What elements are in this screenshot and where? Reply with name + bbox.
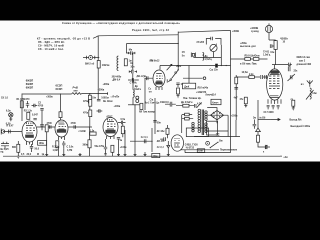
svg-text:Пзв. Тлпвам Цз.: Пзв. Тлпвам Цз. [183,98,202,100]
grid wire [236,76,267,78]
svg-text:высоков. доп: высоков. доп [240,46,256,48]
neon bulb [265,25,272,32]
svg-text:390к: 390к [83,145,89,147]
b+ drop wire [125,105,135,156]
series capacitor C top [129,51,135,55]
ground lamp [9,117,12,121]
supply bus [22,93,107,95]
screen dropper resistor [88,95,91,103]
cathode drop [258,132,265,147]
V2 pin dots [58,139,59,140]
svg-text:+300В: +300В [232,31,239,33]
ps verticals right [235,120,237,137]
cathode rail [257,100,259,128]
svg-text:6Ж3П: 6Ж3П [26,79,33,83]
bracket mark [266,146,268,150]
main B+ drop [177,32,179,71]
coupling cap h [32,104,38,107]
ground glyph e [124,154,127,156]
V1 pins [27,141,33,145]
capacitor С3 [33,118,36,120]
grid resistor V2 [45,125,48,132]
rail cap [153,121,156,123]
coupling line right [272,63,292,67]
mod grid resistor [166,128,169,134]
screen resistors R16 [245,58,251,61]
lower link wire [185,137,231,153]
transformer primary [198,109,201,132]
module box [186,128,208,137]
interstage drop wire [132,53,134,90]
svg-text:БМ-2 об: БМ-2 об [85,63,95,65]
V2 cathode blob [57,129,66,132]
svg-text:Переключение: Переключение [220,150,238,152]
ps small wires [182,115,194,119]
bypass cap right [118,121,126,124]
svg-text:пр.: пр. [1,152,5,154]
svg-text:470к: 470к [83,112,89,115]
svg-text:С9 - МБГЧ, 10 мкФ: С9 - МБГЧ, 10 мкФ [38,43,65,47]
input wire [3,131,22,133]
svg-text:в Об нам. Пам.: в Об нам. Пам. [240,63,257,65]
svg-text:№Об: №Об [260,117,266,120]
svg-text:Выход R/к: Выход R/к [290,120,303,122]
wire cathode [17,141,19,156]
svg-text:+200в: +200в [240,43,247,45]
grid resistor 2,2к [249,76,255,79]
grid cap [270,44,274,48]
svg-text:4н7: 4н7 [234,97,239,100]
svg-text:R10 м04а: R10 м04а [198,86,209,89]
series cap Сс [144,139,146,143]
svg-text:1,5кГц: 1,5кГц [263,54,271,56]
tube V2 envelope [55,120,68,137]
svg-text:С 4Н/с: С 4Н/с [130,82,138,85]
svg-text:Радио 1961, №2, стр 42: Радио 1961, №2, стр 42 [132,28,170,32]
ground glyph d [117,154,120,156]
ground stub 1 [17,156,20,158]
ground r [292,106,295,110]
ground glyph a [45,154,48,156]
svg-text:6С3П: 6С3П [56,87,63,91]
svg-text:100Ом: 100Ом [101,98,109,100]
pilot lamp [9,113,13,117]
grid leak resistor [88,140,91,148]
bus end tick [107,92,109,95]
svg-text:Ключ: Ключ [212,102,219,104]
svg-text:R9 Том помер: R9 Том помер [139,111,156,113]
V5 pins [268,99,281,104]
grid drive wire [145,76,154,80]
grid resistor 470 [177,88,180,94]
svg-text:50к-470к: 50к-470к [95,145,105,148]
svg-text:мм: мм [74,90,78,93]
inline zigzag [72,93,82,95]
svg-text:Ом: Ом [219,140,223,142]
dropping resistor [274,41,277,50]
mains input connector [1,142,9,149]
wires mod section [193,52,221,58]
ground stub 3 [80,153,90,156]
svg-text:R 0,47: R 0,47 [7,125,15,128]
tank cap loop [206,37,221,45]
bias rail [235,75,237,120]
osc section top bus [98,35,178,36]
anode top-cap line [160,66,215,70]
svg-text:Выходной 4 КОм: Выходной 4 КОм [291,125,311,128]
series cap on feed [128,78,139,82]
svg-text:+250в: +250в [231,116,238,118]
svg-text:10н: 10н [92,98,97,100]
meter arrow [271,119,280,121]
coupling bus branch [126,43,178,45]
ground glyph g [144,154,147,156]
transformer core [202,110,203,136]
choke output node [128,104,140,106]
base bypass caps [267,105,280,109]
svg-text:ОВБ 13 сам: ОВБ 13 сам [297,57,311,59]
svg-text:0,047: 0,047 [32,113,39,116]
choke Др2 [133,90,134,105]
bridge connections [207,108,228,137]
resistor R3 [27,112,30,119]
bias cell box [38,141,47,146]
anode blocking cap [288,65,290,72]
V3 pins [107,136,115,139]
grid stopper cap [117,138,120,144]
cathode resistor V3 [111,145,114,152]
coupling cap h2 [97,109,103,112]
antenna coil variometer [306,88,314,100]
V5 grid dashes [269,76,280,98]
black matte frame [0,0,320,180]
svg-text:6Ж3П: 6Ж3П [26,82,33,86]
electrolytic С6 [30,144,33,152]
svg-text:%-ЗТ32: %-ЗТ32 [186,148,195,150]
bias resistor [235,77,238,84]
base bypass resistor [292,100,295,106]
V1 cathode blob [25,135,34,138]
svg-text:4,7М: 4,7М [67,149,72,152]
electrolytic С7 [62,141,65,149]
wire to box [183,66,203,84]
V5 anode lead [274,65,276,69]
wire grid R [46,132,48,142]
svg-text:4700: 4700 [38,104,44,107]
anode terminal blob [215,64,218,68]
input coupling cap [9,130,11,134]
screen rail drop [89,94,91,127]
svg-text:С 2,0к: С 2,0к [67,147,75,149]
svg-text:М: М [37,154,39,156]
tube V5 envelope [267,69,283,100]
svg-text:13,5м: 13,5м [242,72,249,74]
V1 pin dots [26,144,27,145]
resistor R4 [97,61,100,69]
box Юм left [152,153,160,157]
wire grid column [21,94,23,122]
cathode electrolytic [104,139,107,154]
tube V1 envelope [22,121,37,142]
ground glyph h [167,154,170,156]
resistor box 1,2к [90,132,96,135]
bus junction dots [89,93,90,94]
svg-text:50н: 50н [157,122,162,124]
anode feed V2 [60,94,62,121]
bias cap [234,87,238,89]
V5 anode line [270,73,280,75]
bus corner arrow [93,36,98,39]
crystal BM holder [87,56,95,60]
svg-text:ЧЗ/0Вт: ЧЗ/0Вт [280,38,289,40]
svg-text:6,3в: 6,3в [6,111,11,113]
right B+ drop [230,31,232,66]
ps resistor boxes [185,113,190,116]
ground stub mid [145,90,178,156]
svg-text:300-400к: 300-400к [112,76,123,79]
svg-text:50,0: 50,0 [35,148,40,150]
svg-text:6Ж3П: 6Ж3П [26,86,33,90]
V4 internals [156,74,162,82]
svg-text:Сс 0,1: Сс 0,1 [141,137,149,139]
ground glyph b [62,154,65,156]
paper background [0,21,320,162]
grid cap pair [261,75,267,79]
svg-text:ГУ-81: ГУ-81 [263,51,270,53]
svg-text:+300в: +300в [98,90,105,92]
input jack [0,129,2,135]
svg-text:С9 1,0: С9 1,0 [1,98,9,100]
ps left rail [181,115,183,133]
resistor R1 [20,101,23,108]
relay box ДП-К [183,83,196,89]
ps wire [176,105,194,107]
ps cap bottom [216,134,219,135]
svg-text:≈ Rч/Пн: ≈ Rч/Пн [111,95,120,98]
svg-text:4700: 4700 [71,122,77,125]
svg-text:С4БЗ, ТУ30: С4БЗ, ТУ30 [185,143,199,146]
V6 dashes [174,143,180,147]
box ЮМ [197,149,204,153]
wire gl [89,127,91,156]
screen resistors [89,100,92,107]
bottom cap pair [265,145,270,149]
variable cap circle [210,44,217,51]
svg-text:20,0: 20,0 [27,154,32,156]
svg-text:С17 3300: С17 3300 [264,112,275,114]
resistor right [121,126,124,134]
inductor L1 [117,56,118,71]
rail junction dots [178,43,179,44]
tube V6 envelope [171,135,183,151]
ps mid wire [206,130,228,132]
coupling wire V1-V2 [37,126,55,128]
quartz symbol [191,53,195,58]
svg-text:6а-1 Ганч Ца: 6а-1 Ганч Ца [145,103,160,105]
svg-text:Л2: Л2 [173,73,178,75]
rectifier bridge [211,110,224,119]
svg-text:+100в: +100в [120,147,127,149]
V3 internals [107,119,116,129]
switch wire [180,149,219,151]
ps cap [165,102,176,107]
cap С19 [253,120,257,129]
grid cap pair [97,99,101,101]
switch contact [170,79,172,81]
svg-text:1,0М: 1,0М [53,150,58,152]
modulation feed wire [130,140,152,142]
coupling cap С4 [49,125,51,129]
capacitor С1 [26,101,29,108]
mod rail [151,128,153,152]
choke Др1 [203,53,204,61]
svg-text:13м: 13м [312,93,317,95]
svg-text:1,5кГц: 1,5кГц [205,59,213,61]
series capacitor C2 [129,70,137,74]
svg-text:ДМ-0,4: ДМ-0,4 [112,79,121,82]
wire mic to grid [83,57,99,59]
anode resistor V2 [59,112,62,118]
svg-text:470к: 470к [83,100,89,103]
ground 47к [244,104,247,108]
feed rail right [144,79,146,111]
svg-text:Юом: Юом [254,56,260,58]
key box [211,99,221,104]
ps series resistor [183,104,189,107]
ground stub 2 [47,142,64,157]
antenna [307,80,313,87]
svg-text:С8 - 10 мкФ с бол.: С8 - 10 мкФ с бол. [38,47,64,51]
svg-text:С6 200: С6 200 [197,42,205,44]
svg-text:К7 - уровень несущей, -20 до: К7 - уровень несущей, -20 до +13 В [37,37,90,41]
V2 pins [59,137,65,140]
svg-text:ДюК: ДюК [184,86,190,88]
svg-text:су.мод: су.мод [251,31,259,33]
bulb leads [268,23,270,40]
tube V3 envelope [103,118,118,137]
svg-text:≡бл: ≡бл [284,156,289,159]
svg-text:Др 2,5мГн: Др 2,5мГн [181,102,193,104]
svg-text:3м: 3м [253,118,256,120]
V3 cathode blob [105,130,115,134]
indicator circle [206,141,210,145]
ground bus [3,155,280,157]
svg-text:100в: 100в [39,143,45,145]
tank right leg [218,45,231,66]
svg-text:+100в: +100в [114,106,121,108]
transformer secondary lower [205,123,207,133]
resistor 47к [244,97,247,104]
ground glyph f [134,154,137,156]
cap top left [160,137,165,141]
transformer secondary upper [205,111,207,121]
svg-text:+300в: +300в [46,97,53,99]
svg-text:+200в: +200в [103,84,110,86]
svg-text:Схема от Кузнецова — «Амплитуд: Схема от Кузнецова — «Амплитудная модуля… [62,21,181,25]
svg-text:6С3П: 6С3П [56,83,63,87]
svg-text:130/1м: 130/1м [102,65,110,67]
svg-text:Ключ§1А: Ключ§1А [206,94,217,96]
bridge diode ticks [213,112,221,118]
switch arm [210,142,217,147]
capacitor С2 [40,109,43,125]
screen cap lower [40,124,43,130]
output wire V2 [68,126,92,128]
diode symbol [256,128,261,132]
screen rail [154,98,156,134]
svg-text:Сш 12н: Сш 12н [210,69,219,71]
wire vertical grid feed [97,36,99,99]
jack circles [136,96,139,99]
ground osc [177,94,180,98]
diode to ground [167,141,170,150]
svg-text:Л1 6п13: Л1 6п13 [150,61,161,63]
svg-text:Л6 - 6Д6 — 6П6 Вт.: Л6 - 6Д6 — 6П6 Вт. [38,40,65,44]
svg-text:Rс 30н: Rс 30н [157,131,165,133]
grid cap 10н [176,83,179,87]
ps cap2 [194,104,196,108]
secondary box [207,121,218,135]
svg-text:длинной 390: длинной 390 [297,63,312,66]
var arrow [197,102,202,107]
V4 cathode blob [155,82,162,85]
ground stub 4 [112,143,118,156]
V1 grid dashes [26,123,35,136]
svg-text:шаг 2: шаг 2 [299,60,306,62]
capacitor C vertical [124,59,127,66]
loading cap variable [288,74,295,81]
ground glyph c [79,154,82,156]
svg-text:0,5н: 0,5н [121,119,126,121]
cathode resistor V2b [56,141,59,148]
svg-text:10н: 10н [270,52,275,54]
svg-text:с НОВ: с НОВ [79,131,86,133]
branch drop [126,44,128,53]
b+ rail from top [230,65,232,137]
coupling cap С5 [74,125,76,129]
svg-text:Сс 0,1: Сс 0,1 [157,147,165,149]
svg-text:+3200В: +3200В [250,28,259,30]
svg-text:+12В/473: +12В/473 [196,91,207,94]
V6 top dots [174,138,175,139]
cathode resistor bottom [257,135,260,142]
svg-text:Вх 0,25: Вх 0,25 [1,149,10,151]
V5 cathode blob [270,70,279,73]
svg-text:Rн 10ом: Rн 10ом [103,101,113,103]
ground под V3 [104,154,107,156]
V4 pins [156,87,162,90]
V2 internals [59,121,67,129]
svg-text:СЗВ 8,0: СЗВ 8,0 [160,102,169,104]
wire right drop [122,124,124,137]
switch arm к [167,64,179,78]
top B+ bus [178,30,230,32]
cathode resistor V1 [17,144,20,152]
filter choke winding [192,122,194,132]
tube V4 envelope [153,70,165,87]
meter wire [258,119,271,121]
resistor R9 [140,103,143,109]
ps bottom wire [194,136,240,138]
screen wire [231,58,268,60]
svg-text:2Вт: 2Вт [175,66,181,68]
svg-text:10мГн: 10мГн [134,89,142,91]
